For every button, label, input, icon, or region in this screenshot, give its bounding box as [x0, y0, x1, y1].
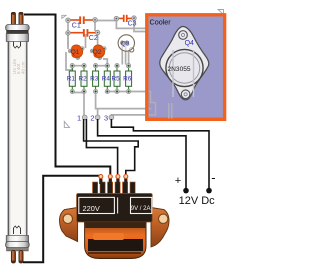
transformer pin tabs — [93, 182, 136, 195]
wire pad1 to transformer pin4 — [84, 119, 139, 174]
svg-text:Q1: Q1 — [71, 49, 80, 56]
transformer — [59, 175, 169, 259]
svg-text:9V / 2A: 9V / 2A — [131, 206, 151, 212]
svg-text:R5: R5 — [112, 76, 121, 83]
terminal minus — [206, 188, 212, 194]
tube top cap — [6, 25, 30, 42]
transformer pin1 — [99, 177, 102, 184]
fluorescent tube glass — [8, 41, 28, 236]
Q4 mounting hole bottom — [181, 90, 190, 99]
svg-text:C1: C1 — [72, 23, 81, 30]
resistor R6 — [123, 63, 132, 93]
svg-text:Q3: Q3 — [121, 40, 130, 47]
svg-text:12V Dc: 12V Dc — [179, 195, 216, 207]
svg-text:R2: R2 — [79, 76, 88, 83]
capacitor C2 — [66, 29, 100, 42]
trace R4 top elbow — [103, 59, 107, 65]
capacitor C3 — [114, 15, 137, 28]
resistor R5 — [112, 63, 121, 93]
transformer core — [77, 194, 153, 223]
svg-text:-: - — [211, 170, 215, 185]
tube electrode top — [14, 42, 21, 49]
transformer pin3 — [116, 177, 119, 184]
trace C1R-C2R — [94, 21, 96, 32]
trace R4-R6 bottom to cooler — [107, 91, 146, 93]
pcb corner mark top-left — [62, 15, 66, 18]
trace R3 bottom to cooler — [96, 93, 146, 109]
resistor R3 — [90, 63, 99, 93]
svg-text:R1: R1 — [67, 76, 76, 83]
cooler box — [147, 15, 225, 120]
cooler inner trace a — [149, 92, 156, 115]
svg-text:1: 1 — [77, 114, 81, 123]
cooler inner trace c — [168, 103, 170, 119]
svg-text:3: 3 — [104, 114, 108, 123]
trace R2 bottom to pad1 — [83, 93, 85, 116]
tube bottom pin left — [11, 251, 15, 264]
svg-text:R4: R4 — [102, 76, 111, 83]
tube top pin left — [11, 12, 15, 25]
svg-text:+: + — [175, 175, 181, 187]
Q4 mounting hole top — [179, 31, 188, 40]
transistor Q4 TO-3 flange — [160, 27, 209, 100]
svg-text:Q4: Q4 — [185, 40, 194, 47]
svg-text:R6: R6 — [123, 76, 132, 83]
transformer pin2 — [109, 177, 112, 184]
trace C1R-C3L to cooler — [96, 21, 147, 29]
pcb corner mark top-right — [218, 10, 224, 15]
transformer left bracket — [59, 208, 77, 242]
svg-text:2N3055: 2N3055 — [168, 66, 191, 73]
svg-text:R3: R3 — [90, 76, 99, 83]
resistor R4 — [102, 63, 111, 93]
terminal plus — [183, 188, 189, 194]
tube electrode bottom — [14, 226, 21, 234]
tube bottom cap — [6, 236, 30, 251]
trace C2 mid down — [85, 34, 87, 48]
trace Q3 leg b — [125, 45, 127, 65]
trace R1-R2 bottom — [72, 92, 84, 94]
Q4 can — [166, 49, 203, 86]
label 9V/2A — [131, 197, 152, 213]
tube top pin right — [19, 12, 23, 25]
svg-text:Q2: Q2 — [93, 49, 102, 56]
transformer right bracket — [151, 208, 169, 248]
svg-text:40 cm: 40 cm — [21, 61, 26, 74]
trace Q3 leg a — [121, 45, 123, 65]
pcb corner mark bottom-left — [64, 122, 69, 128]
trace R3-R4 top — [96, 65, 108, 67]
capacitor C1 — [66, 16, 98, 29]
trace R6 top up — [128, 50, 130, 65]
wire pad3 to minus terminal — [111, 119, 209, 189]
resistor R1 — [67, 63, 76, 93]
traces showing through package — [172, 50, 174, 97]
wire tube-top to transformer pin2 — [24, 15, 110, 175]
transistor Q2 — [90, 45, 106, 60]
wire tube-bottom to transformer pin1 — [23, 176, 101, 262]
svg-text:C2: C2 — [89, 35, 98, 42]
cooler inner trace d — [171, 103, 173, 119]
trace pad3 to cooler — [111, 114, 146, 117]
transistor Q1 — [68, 45, 84, 60]
tube bottom pin right — [19, 251, 23, 264]
trace pad2 up — [97, 109, 99, 115]
resistor R2 — [79, 63, 88, 93]
wire pad2 to plus terminal — [98, 119, 186, 189]
transformer pin4 — [124, 177, 127, 184]
svg-text:220V: 220V — [83, 204, 100, 213]
trace C3R to cooler — [134, 20, 146, 32]
wire pad1 to transformer pin3 — [86, 119, 117, 174]
svg-text:Cooler: Cooler — [150, 18, 172, 27]
transformer coil — [85, 223, 146, 259]
grey traces — [66, 20, 146, 116]
svg-text:2: 2 — [90, 114, 94, 123]
trace C1L-Q1 — [67, 21, 69, 47]
svg-text:C3: C3 — [128, 20, 137, 27]
cooler inner trace b — [149, 108, 152, 110]
trace C2L-Q1 — [67, 33, 69, 49]
label 220V — [79, 197, 115, 213]
transistor Q3 outline — [118, 35, 134, 52]
trace C2R-Q2 — [97, 34, 99, 49]
trace R1-R2 top — [66, 52, 84, 70]
